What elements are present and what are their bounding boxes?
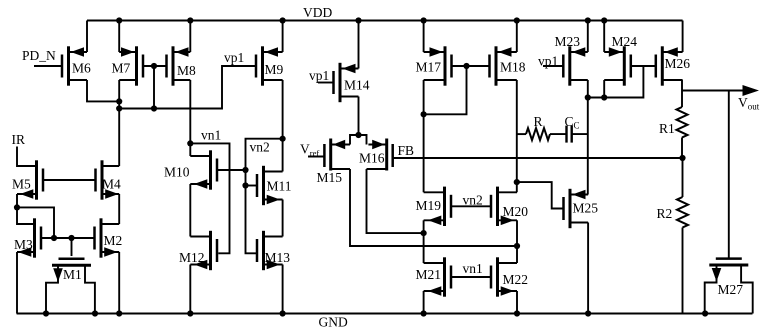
junction bias bus / M23 drain / Cc column: [585, 94, 591, 100]
junction VDD / M17 source: [421, 17, 427, 23]
wire output node Vout: [682, 90, 743, 92]
junction vn2 column / M11 gate: [242, 182, 248, 188]
svg-text:vp1: vp1: [224, 50, 244, 65]
junction VDD / M9 source: [280, 17, 286, 23]
svg-text:Vref: Vref: [300, 142, 319, 159]
wire M9 drain down to vn2 box: [282, 80, 284, 172]
wire gate tie down to vp1 bus: [153, 66, 155, 109]
junction bias bus / M24 drain: [601, 94, 607, 100]
svg-text:PD_N: PD_N: [22, 48, 56, 63]
svg-text:M6: M6: [72, 61, 91, 76]
junction VDD / M18 source: [514, 17, 520, 23]
transistor M18: [490, 46, 526, 85]
transistor M11: [257, 166, 292, 205]
transistor M7: [112, 46, 144, 85]
wire IR input down to M5 drain: [17, 147, 37, 167]
wire Cc to M23/M24 drain column: [572, 133, 588, 135]
junction GND / M21 source: [421, 310, 427, 316]
svg-text:M5: M5: [12, 177, 31, 192]
svg-text:M16: M16: [359, 151, 385, 166]
svg-text:M26: M26: [665, 56, 691, 71]
wire M12 source to GND: [189, 265, 191, 314]
junction M15-drain wire / cascode right: [514, 243, 520, 249]
transistor M3: [14, 218, 41, 257]
svg-text:R2: R2: [657, 206, 673, 221]
junction GND / M22 source: [514, 310, 520, 316]
wire M17 gate to M18 gate: [452, 65, 490, 67]
node vp1 gate stub of M23: [543, 65, 563, 67]
svg-text:vn2: vn2: [250, 140, 270, 155]
svg-text:M19: M19: [416, 198, 442, 213]
wire vn1 node to M12 gate: [190, 143, 229, 253]
svg-text:M21: M21: [416, 267, 442, 282]
junction M18 drain / M25 gate branch: [514, 179, 520, 185]
wire M2 source to GND: [118, 252, 120, 314]
junction M16-drain wire / cascode left: [421, 230, 427, 236]
junction GND / M13 source: [280, 310, 286, 316]
svg-text:FB: FB: [398, 143, 415, 158]
wire M11 gate to vn2 column: [246, 185, 258, 187]
transistor M19: [416, 187, 452, 226]
wire M15 drain down to M20/M22 column: [350, 169, 517, 246]
power rail GND: [17, 312, 753, 314]
wire node B to M3-M2 gate line: [17, 207, 54, 238]
svg-text:IR: IR: [12, 132, 26, 147]
svg-text:GND: GND: [319, 315, 348, 330]
wire M17 source to VDD: [423, 21, 425, 53]
wire M6 drain down to node A: [87, 80, 119, 101]
junction node A (M6/M7 drains): [116, 98, 122, 104]
wire M14 source to VDD: [358, 21, 360, 69]
wire M8 drain down to vn1 node: [189, 80, 191, 143]
svg-text:M17: M17: [416, 60, 442, 75]
svg-text:M10: M10: [164, 165, 190, 180]
junction FB node (R1/R2 divider): [679, 155, 685, 161]
wire M24 drain down to bias bus: [603, 80, 605, 98]
junction gate line / M1 gate: [68, 235, 74, 241]
transistor M1: [46, 259, 95, 314]
wire tail bridge to M15/M16 sources: [350, 135, 367, 145]
junction vn1 node (M8 drain / M10 drain): [187, 140, 193, 146]
junction vp1 bus / M7 drain: [116, 105, 122, 111]
node PD_N gate stub: [34, 65, 62, 67]
transistor M24: [604, 34, 637, 86]
wire M3 gate to M2 gate: [41, 237, 95, 239]
wire bias bus (M23/M24 drains to gate tie): [588, 66, 644, 98]
svg-text:R: R: [534, 114, 543, 129]
svg-text:M14: M14: [344, 78, 370, 93]
wire M26 source to VDD rail corner: [682, 21, 684, 53]
junction GND / M12 source: [187, 310, 193, 316]
wire M17 drain down to M19 drain: [423, 80, 425, 192]
wire R branch from M18 drain: [517, 133, 526, 135]
junction GND / M25 drain: [585, 310, 591, 316]
transistor M13: [257, 231, 290, 270]
junction M17/M18 gates: [463, 63, 469, 69]
junction GND / M2 source: [116, 310, 122, 316]
wire M4 source down to M2 drain: [118, 194, 120, 224]
junction VDD / M14 source: [355, 17, 361, 23]
wire M10 source down to M12 drain: [189, 184, 191, 237]
junction gate line / node B branch: [51, 235, 57, 241]
junction M17 drain / gate tie: [421, 111, 427, 117]
svg-text:vn1: vn1: [201, 128, 221, 143]
junction vn2 column / M10 gate: [242, 167, 248, 173]
resistor R1: [681, 91, 683, 108]
transistor M14: [334, 63, 370, 102]
resistor R: [526, 128, 550, 140]
junction node B (M5 source / M3 drain / gate bias): [14, 204, 20, 210]
wire vp1 bus to M9 gate: [119, 66, 256, 109]
svg-text:vn1: vn1: [463, 261, 483, 276]
svg-text:M7: M7: [112, 61, 131, 76]
junction vp1 bus / gate tie: [151, 105, 157, 111]
svg-text:M1: M1: [63, 267, 82, 282]
transistor M16: [359, 139, 393, 171]
svg-text:M3: M3: [14, 237, 33, 252]
wire M8 source to VDD: [189, 21, 191, 53]
junction GND / M1 right lead: [92, 310, 98, 316]
junction M9 drain / vn2 wire: [280, 136, 286, 142]
wire M20 source to M22 drain: [516, 220, 518, 263]
node vp1 gate stub of M14: [318, 82, 334, 84]
wire M25 gate from M18/M20 drain node: [517, 182, 564, 208]
svg-text:M23: M23: [555, 34, 581, 49]
svg-text:M13: M13: [265, 250, 291, 265]
wire gate tie down to M17 drain: [424, 66, 467, 114]
wire M5 source down to node B: [17, 194, 35, 224]
transistor M2: [95, 218, 123, 257]
transistor M5: [12, 160, 43, 199]
wire M7 drain down through node A to vp1 bus: [118, 80, 120, 109]
transistor M15: [317, 139, 351, 186]
wire M24 gate to M26 gate: [631, 65, 656, 67]
svg-text:M15: M15: [317, 170, 343, 185]
svg-text:VDD: VDD: [303, 5, 332, 20]
wire M18 source to VDD: [516, 21, 518, 53]
transistor M25: [564, 189, 599, 228]
wire M6 source to VDD: [86, 21, 88, 53]
transistor M4: [96, 160, 122, 199]
junction tail node: [355, 132, 361, 138]
transistor M20: [491, 187, 528, 226]
transistor M27: [705, 259, 753, 314]
transistor M26: [656, 46, 690, 85]
svg-text:M12: M12: [179, 250, 205, 265]
wire M18 drain down to M20 drain: [516, 80, 518, 192]
wire M19 gate to M20 gate (vn2): [451, 205, 491, 207]
wire M26 drain to output node: [681, 80, 683, 91]
svg-text:M4: M4: [102, 177, 121, 192]
wire M7 gate to M8 gate: [143, 65, 167, 67]
wire vn2 box (M11 drain to gate column): [246, 139, 283, 254]
svg-text:CC: CC: [565, 114, 580, 131]
wire M23 source to VDD: [587, 21, 589, 53]
power rail VDD: [87, 19, 683, 21]
svg-text:vp1: vp1: [538, 54, 558, 69]
transistor M21: [416, 257, 452, 296]
node Vref gate stub of M15: [308, 156, 324, 158]
svg-text:Vout: Vout: [738, 95, 760, 112]
wire M1 gate lead: [71, 238, 73, 256]
svg-text:R1: R1: [659, 121, 675, 136]
junction GND / M27 left lead: [702, 310, 708, 316]
wire M21 source to GND: [423, 291, 425, 314]
svg-text:M8: M8: [177, 63, 196, 78]
wire M19 source to M21 drain: [423, 220, 425, 263]
svg-text:M18: M18: [500, 60, 526, 75]
wire M11 source down to M13 drain: [282, 200, 284, 237]
wire M9 source to VDD: [282, 21, 284, 53]
svg-text:M2: M2: [104, 233, 123, 248]
wire M21 gate to M22 gate (vn1): [451, 276, 491, 278]
wire M7 source to VDD: [118, 21, 120, 53]
svg-text:M25: M25: [573, 201, 599, 216]
transistor M22: [491, 257, 528, 296]
wire FB net (M16 gate to feedback divider): [393, 157, 683, 159]
junction M7/M8 gates: [151, 63, 157, 69]
wire M13 source to GND: [282, 265, 284, 314]
svg-text:vp1: vp1: [309, 68, 329, 83]
wire M23 drain down to bias bus: [587, 80, 589, 98]
wire R to Cc: [550, 133, 567, 135]
wire M4 drain up to vp1 bus: [118, 109, 120, 167]
transistor M17: [416, 46, 452, 85]
terminal arrow Vout: [743, 85, 760, 96]
junction GND / M1 left lead: [43, 310, 49, 316]
wire M16 drain down to M19/M21 column: [367, 169, 424, 233]
wire M10 gate to vn2 column: [217, 169, 246, 171]
wire M24 source to VDD: [603, 21, 605, 53]
svg-text:M11: M11: [267, 179, 292, 194]
svg-text:M22: M22: [503, 272, 529, 287]
junction VDD / M23 source: [585, 17, 591, 23]
junction VDD / M8 source: [187, 17, 193, 23]
wire M22 source to GND: [516, 291, 518, 314]
wire M14 drain to diff pair tail: [358, 97, 360, 136]
wire Cc column down to M25 source: [587, 98, 589, 195]
transistor M10: [164, 150, 217, 189]
transistor M23: [555, 34, 588, 86]
svg-text:M27: M27: [718, 282, 744, 297]
junction VDD / M24 source: [601, 17, 607, 23]
wire M25 drain to GND: [587, 223, 589, 314]
transistor M12: [179, 231, 217, 270]
wire M10 drain up to vn1 node: [189, 143, 191, 156]
transistor M9: [256, 46, 284, 85]
svg-text:M20: M20: [503, 204, 529, 219]
resistor R2: [682, 158, 684, 197]
capacitor Cc: [565, 126, 567, 143]
junction VDD / M7 source: [116, 17, 122, 23]
wire M5 gate to M4 gate: [43, 179, 96, 181]
svg-text:vn2: vn2: [463, 192, 483, 207]
wire Vout branch down to M27 gate: [728, 91, 730, 258]
transistor M8: [167, 46, 197, 85]
wire M3 source to GND: [16, 252, 18, 314]
svg-text:M9: M9: [265, 62, 284, 77]
transistor M6: [62, 46, 91, 85]
svg-text:M24: M24: [612, 34, 638, 49]
